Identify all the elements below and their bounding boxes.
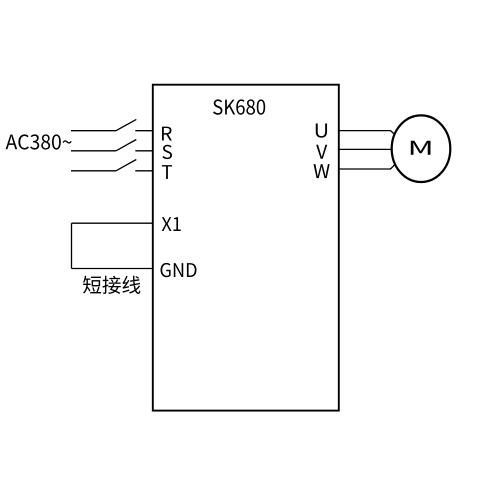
switch blade phase S (open contact) (116, 140, 136, 151)
wire: terminal GND to jumper (72, 268, 153, 270)
pin label R (162, 127, 172, 141)
wire: AC supply phase R (71, 130, 116, 132)
source net label AC380~ (6, 134, 72, 149)
wire: jumper vertical segment (71, 223, 73, 268)
pin label S (162, 145, 172, 159)
inverter SK680 (VFD) box (153, 85, 339, 411)
pin label W (314, 164, 330, 178)
wire: AC supply phase S (71, 150, 116, 152)
switch blade phase T (open contact) (116, 160, 136, 171)
switch blade phase R (open contact) (116, 119, 136, 130)
wire: output W to motor (339, 165, 395, 169)
wire: stub to terminal R (135, 130, 153, 132)
wire: output U to motor (339, 131, 395, 135)
pin label T (162, 165, 172, 179)
wire: AC supply phase T (71, 170, 116, 172)
pin label GND (161, 263, 197, 277)
label 短接线 (jumper wire) (83, 276, 140, 294)
motor M1 circle (392, 115, 451, 182)
wire: terminal X1 to jumper (72, 222, 153, 224)
wire: stub to terminal S (135, 150, 153, 152)
value label SK680 (213, 99, 265, 114)
motor label M (411, 141, 431, 155)
wire: output V to motor (339, 148, 392, 150)
pin label U (316, 123, 327, 137)
pin label V (316, 145, 327, 159)
wire: stub to terminal T (135, 170, 153, 172)
pin label X1 (162, 217, 181, 231)
